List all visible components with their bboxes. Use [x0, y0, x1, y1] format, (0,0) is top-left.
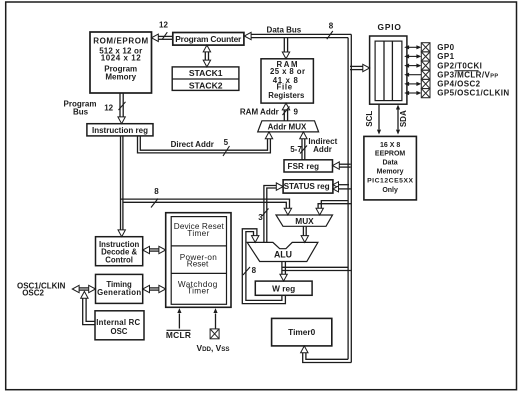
arrow: Vdd Vss filled up: [213, 308, 217, 313]
arrow: into MUX left input: [284, 208, 291, 215]
arrow: GP3 into GPIO: [404, 73, 409, 77]
wire: GP3 line (input only): [406, 74, 421, 76]
wire: 8-bit literal bus horizontal (double line): [121, 199, 290, 210]
svg-text:Direct Addr: Direct Addr: [171, 140, 214, 149]
pin pad GP5: [421, 89, 430, 98]
svg-text:Timer0: Timer0: [288, 327, 315, 337]
svg-text:STATUS reg: STATUS reg: [284, 182, 330, 191]
FSR reg: [284, 160, 333, 172]
svg-text:Data: Data: [383, 160, 398, 167]
svg-text:1024 x 12: 1024 x 12: [101, 53, 142, 62]
svg-text:GP4/OSC2: GP4/OSC2: [437, 80, 480, 89]
wire: bus tap to FSR reg: [339, 163, 351, 165]
tick: 5-7 on FSR line: [300, 146, 307, 154]
GPIO inner box: [375, 41, 402, 101]
svg-text:Bus: Bus: [73, 107, 89, 116]
arrow: into RAM top from data bus: [282, 52, 289, 59]
svg-text:Only: Only: [382, 187, 398, 194]
svg-text:Registers: Registers: [268, 91, 305, 100]
svg-text:9: 9: [293, 108, 298, 117]
svg-text:Timer: Timer: [187, 229, 209, 238]
internal RC OSC block: [95, 311, 144, 340]
pin pad GP2: [421, 61, 430, 70]
arrow: into STATUS right upper: [333, 182, 339, 188]
svg-text:8: 8: [329, 21, 334, 30]
arrows: GP1 bidirectional: [404, 54, 409, 58]
svg-text:ALU: ALU: [274, 250, 292, 260]
power-on / watchdog divider: [171, 272, 226, 274]
svg-text:STACK2: STACK2: [189, 80, 223, 90]
wire: internal RC OSC loop to timing generation: [86, 298, 95, 321]
instruction reg: [87, 124, 153, 136]
svg-text:Data Bus: Data Bus: [267, 26, 302, 35]
svg-text:GP1: GP1: [437, 52, 454, 61]
svg-text:W reg: W reg: [272, 284, 295, 294]
arrow: into Addr MUX from direct addr: [265, 132, 272, 139]
svg-text:OSC2: OSC2: [22, 288, 44, 297]
svg-text:Addr MUX: Addr MUX: [268, 123, 307, 132]
svg-text:SCL: SCL: [365, 111, 374, 127]
wire: Vdd Vss arrow: [215, 314, 217, 329]
arrow: internal RC up into timing line: [81, 291, 88, 298]
arrow: into FSR from bus: [333, 162, 340, 169]
svg-text:5: 5: [224, 138, 229, 147]
wire: GP5 line: [406, 92, 420, 94]
arrow: into ALU from W reg feedback: [252, 236, 259, 243]
wire: instruction reg to instruction decode (double line): [120, 136, 122, 232]
svg-text:Timer: Timer: [187, 287, 209, 296]
arrow: into ALU from MUX: [301, 236, 308, 243]
arrow: into GPIO from bus: [363, 64, 370, 71]
wire: GP2 line: [406, 65, 420, 67]
Vdd Vss pad: [210, 329, 219, 339]
svg-text:Internal RC: Internal RC: [96, 318, 140, 327]
arrow: into reset block from instruction decode: [159, 246, 166, 253]
arrow: SDA filled up into GPIO: [396, 105, 400, 110]
ALU trapezoid with notch: [247, 242, 318, 261]
arrow: OSC bidirectional left: [72, 285, 79, 292]
wire: FSR to Addr MUX (double line): [301, 138, 303, 160]
wire: data bus right vertical (double line): [350, 34, 352, 362]
wire: SCL line: [378, 104, 380, 129]
arrows: GP4 bidirectional: [404, 82, 409, 86]
svg-text:8: 8: [154, 187, 159, 196]
wire: OSC pins to timing generation bidirectional: [78, 287, 90, 289]
arrow: into PC from data bus: [244, 32, 251, 39]
arrow: into Addr MUX from FSR: [300, 132, 307, 139]
Timer0 block: [272, 318, 332, 346]
wire: GP4 line: [406, 83, 420, 85]
arrow: into reset block from timing gen: [159, 285, 166, 292]
SLASHES (bus width ticks): [119, 31, 333, 275]
tick: 12 on PC-ROM bus: [162, 32, 167, 39]
svg-text:FSR reg: FSR reg: [288, 162, 320, 171]
wire: W reg feedback loop to ALU: [242, 229, 285, 304]
svg-text:GP2/T0CKI: GP2/T0CKI: [437, 61, 482, 70]
arrow: into ROM from PC: [152, 34, 159, 41]
GPIO inner divider 1: [383, 41, 385, 101]
svg-text:12: 12: [159, 20, 168, 29]
svg-text:3: 3: [258, 213, 263, 222]
wire: ALU flags to STATUS reg 3-bit (double line): [264, 186, 277, 243]
arrow: SDA filled down into EEPROM: [396, 130, 400, 135]
wire: data bus horizontal top (double line): [250, 33, 352, 35]
wire: GP1 line: [406, 55, 420, 57]
svg-text:16 X 8: 16 X 8: [380, 142, 400, 149]
arrows: GP0 bidirectional: [404, 45, 409, 49]
arrow: into instruction reg from ROM: [118, 117, 125, 124]
arrows: GP2 bidirectional: [404, 64, 409, 68]
svg-text:EEPROM: EEPROM: [375, 151, 406, 158]
wire: bus taps to STATUS reg right: [338, 184, 349, 186]
arrow: into timing gen from OSC: [89, 285, 96, 292]
arrow: into MUX right input: [316, 208, 323, 215]
wire: PC to STACK vertical (double line): [204, 50, 206, 62]
STATUS reg: [283, 180, 333, 193]
tick: 3 on status line: [262, 209, 269, 217]
tick: 5 on direct addr: [223, 146, 230, 156]
arrows: GP5 bidirectional: [404, 91, 409, 95]
svg-text:Program Counter: Program Counter: [175, 34, 242, 44]
wire: bus branch to GPIO: [350, 65, 364, 67]
wire: data bus down to RAM (double line): [283, 38, 285, 53]
W reg: [255, 281, 312, 295]
tick: 12 on program bus: [119, 102, 126, 110]
arrow: into STATUS left from ALU: [276, 183, 283, 190]
tick: 8 on literal bus: [151, 199, 158, 208]
wire: direct addr bus from instruction reg to Addr MUX: [138, 136, 271, 153]
svg-text:OSC: OSC: [111, 327, 128, 336]
wire: MUX output to ALU (double line): [302, 226, 304, 237]
arrow: into PC bottom from stack: [203, 45, 210, 52]
arrow: into STATUS right lower: [333, 186, 339, 192]
svg-text:Addr: Addr: [313, 145, 332, 154]
arrow: into instruction decode from reset block: [143, 246, 150, 253]
pin pad GP0: [421, 43, 430, 52]
wire: GP0 line: [406, 46, 420, 48]
svg-text:Reset: Reset: [187, 260, 209, 269]
pin pad GP1: [421, 52, 430, 61]
arrow: MCLR filled up: [177, 308, 181, 313]
wire: instruction decode to reset block bidirectional: [149, 248, 161, 250]
ARROWHEADS: [72, 32, 400, 352]
svg-text:Memory: Memory: [377, 168, 404, 175]
wire: data bus to MUX right input: [321, 201, 348, 210]
svg-text:MCLR: MCLR: [166, 330, 191, 340]
overline: MCLR in GP3 label: [455, 70, 479, 72]
svg-text:PIC12CE5XX: PIC12CE5XX: [367, 178, 413, 185]
arrow: into W reg from ALU: [280, 274, 287, 281]
arrow: into STACK1 top: [203, 60, 210, 67]
reset/watchdog outer box: [166, 213, 231, 308]
MUX trapezoid: [276, 215, 333, 226]
svg-text:STACK1: STACK1: [189, 68, 223, 78]
arrow: SCL filled down into EEPROM: [377, 130, 381, 135]
stack divider: [172, 78, 239, 80]
wire: ALU output to data bus (double line): [282, 266, 348, 268]
GPIO PINS SECTION: [210, 43, 430, 339]
STACK1/STACK2 block: [172, 67, 239, 91]
instruction decode and control block: [96, 237, 143, 266]
svg-text:GPIO: GPIO: [377, 22, 401, 32]
wire: timing generation to reset block bidirectional: [149, 287, 161, 289]
EEPROM data memory block: [364, 136, 417, 200]
timing generation block: [96, 274, 143, 303]
pin pad GP3: [421, 70, 430, 79]
svg-text:GP3/MCLR/VPP: GP3/MCLR/VPP: [437, 70, 498, 79]
svg-text:Generation: Generation: [97, 288, 141, 297]
Addr MUX trapezoid: [258, 121, 319, 132]
device reset / power-on divider: [171, 245, 226, 247]
arrow: into instruction decode from instruction reg: [118, 230, 125, 237]
svg-text:GP5/OSC1/CLKIN: GP5/OSC1/CLKIN: [437, 89, 509, 98]
wire: SDA line: [397, 110, 399, 130]
wire: MCLR pin arrow: [178, 314, 180, 329]
svg-text:8: 8: [252, 266, 257, 275]
svg-text:5-7: 5-7: [290, 145, 302, 154]
svg-text:12: 12: [104, 103, 113, 112]
ROM/EPROM program memory block: [90, 32, 152, 93]
RAM file registers block: [261, 59, 313, 103]
svg-text:Instruction reg: Instruction reg: [92, 126, 148, 135]
arrow: into Timer0 bottom: [301, 346, 308, 353]
svg-text:MUX: MUX: [295, 216, 314, 226]
svg-text:GP0: GP0: [437, 43, 454, 52]
wire: ROM to instruction reg (double line): [119, 93, 121, 119]
wire: bus branch to Timer0: [306, 352, 348, 360]
svg-text:RAM Addr: RAM Addr: [240, 108, 279, 117]
arrow: into timing gen from reset block: [143, 285, 150, 292]
svg-text:SDA: SDA: [399, 110, 408, 127]
program counter PC: [173, 33, 244, 46]
svg-text:25 x 8 or: 25 x 8 or: [270, 67, 305, 76]
arrow: into RAM bottom from Addr MUX: [282, 103, 289, 110]
reset/watchdog inner box: [171, 217, 226, 305]
wire: Addr MUX to RAM (double line): [283, 110, 285, 121]
GPIO inner divider 2: [391, 41, 393, 101]
wire: PC to ROM 12-bit bus (double line): [157, 35, 173, 37]
svg-text:Memory: Memory: [105, 72, 136, 81]
svg-text:Control: Control: [105, 256, 133, 265]
wire: ALU output to W reg (double line): [281, 262, 283, 276]
tick: 8 on W feedback: [243, 267, 250, 275]
svg-text:ROM/EPROM: ROM/EPROM: [93, 37, 148, 46]
GPIO outer box: [370, 36, 407, 104]
tick: 8 on data bus: [327, 31, 333, 39]
tick: 9 on RAM addr: [283, 107, 290, 116]
pin pad GP4: [421, 79, 430, 88]
